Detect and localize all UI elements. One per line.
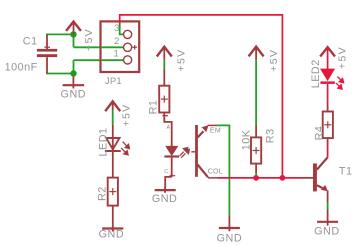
- connector JP1 pin pads: [124, 30, 132, 64]
- node junction +5V: [70, 31, 76, 37]
- wire emitter pin: [327, 190, 329, 202]
- capacitor C1: [37, 35, 57, 74]
- svg-text:C1: C1: [23, 35, 38, 47]
- wire +5V to LED1: [112, 110, 114, 125]
- transistor T1: [303, 157, 328, 191]
- LED1 emission arrows: [121, 142, 129, 155]
- ground symbol (opto transistor): [219, 216, 240, 231]
- svg-text:+5V: +5V: [175, 48, 187, 71]
- ground symbol (C1 area): [63, 77, 85, 89]
- svg-text:JP1: JP1: [105, 76, 122, 87]
- svg-text:GND: GND: [99, 229, 125, 241]
- svg-text:3: 3: [114, 23, 119, 34]
- svg-text:10K: 10K: [240, 129, 252, 150]
- LED2 emission arrows: [336, 77, 344, 90]
- svg-text:R4: R4: [313, 126, 325, 141]
- connector JP1 body: [101, 21, 140, 72]
- svg-text:EM: EM: [210, 128, 221, 135]
- svg-text:GND: GND: [61, 89, 87, 101]
- wire +5V to R3 (green): [255, 60, 257, 126]
- wire R2 to ground: [112, 206, 114, 228]
- svg-text:R3: R3: [265, 128, 277, 143]
- pin COL stub: [208, 177, 218, 179]
- opto-coupler phototransistor: [195, 125, 209, 177]
- wire R1 to opto LED (jog): [162, 113, 171, 147]
- power +5V symbol (R3): [249, 47, 264, 60]
- svg-text:1: 1: [114, 49, 119, 60]
- wire +5V to R1: [163, 60, 165, 69]
- wire signal from JP1 pin 3 across top and down (crimson): [120, 15, 283, 177]
- wire emitter to ground (green): [217, 125, 229, 216]
- wire opto LED cathode to ground (jog): [165, 176, 175, 190]
- power +5V symbol (R1): [157, 47, 172, 60]
- svg-text:LED1: LED1: [97, 127, 109, 156]
- node junction GND: [70, 70, 76, 76]
- wire +5V to LED2 (crimson): [327, 48, 329, 69]
- svg-text:GND: GND: [152, 193, 178, 205]
- svg-text:R1: R1: [147, 100, 159, 115]
- wire JP1 pin 1 entry (green): [102, 59, 124, 61]
- svg-text:COL: COL: [208, 168, 223, 175]
- ground symbol (opto LED): [155, 188, 176, 193]
- svg-text:100nF: 100nF: [5, 62, 38, 74]
- svg-text:+5V: +5V: [120, 103, 132, 126]
- power +5V symbol (LED2): [320, 47, 335, 56]
- opto-coupler LED: [164, 146, 179, 177]
- wire R4 to collector (crimson): [327, 144, 329, 157]
- svg-text:+5V: +5V: [268, 49, 280, 72]
- svg-text:2: 2: [114, 36, 119, 47]
- svg-text:+5V: +5V: [337, 46, 349, 69]
- svg-text:GND: GND: [217, 232, 243, 244]
- wire collector net (crimson): [218, 177, 303, 179]
- svg-text:GND: GND: [314, 226, 340, 238]
- wire R3 to junction (green): [255, 173, 257, 176]
- wire JP1 pin 3 stub (green): [120, 25, 124, 35]
- power +5V symbol (C1/JP1): [66, 22, 81, 34]
- resistor R2: [108, 178, 118, 206]
- svg-text:R2: R2: [96, 186, 108, 201]
- pin EM stub: [208, 124, 218, 126]
- resistor R3: [251, 125, 261, 172]
- resistor R4: [323, 105, 333, 144]
- node junction R3/collector: [253, 175, 259, 181]
- svg-text:LED2: LED2: [310, 59, 322, 88]
- opto LED emission arrows: [180, 148, 198, 158]
- wire +5V net: junction down and right to JP1 pin 2: [74, 34, 124, 48]
- svg-text:+5V: +5V: [83, 28, 95, 51]
- ground symbol (R2): [102, 227, 123, 232]
- power +5V symbol (LED1): [105, 101, 120, 111]
- wire GND net: junction up and right to JP1 pin 1: [74, 60, 124, 73]
- LED LED2 (crimson): [320, 69, 334, 105]
- ground symbol (T1): [317, 210, 338, 226]
- node junction JP1-signal/collector: [280, 175, 286, 181]
- wire JP1 pin 2 entry (green): [102, 46, 124, 48]
- svg-text:T1: T1: [339, 165, 353, 177]
- pin cross JP1 pin 2: [132, 45, 137, 50]
- wire emitter to ground (green): [327, 202, 329, 209]
- svg-text:A: A: [167, 125, 171, 131]
- wire GND net: C1 bottom to junction: [46, 73, 74, 75]
- LED LED1: [105, 125, 121, 178]
- wire +5V net: C1 top to junction: [46, 33, 74, 35]
- svg-text:C: C: [164, 169, 168, 175]
- resistor R1: [159, 69, 169, 113]
